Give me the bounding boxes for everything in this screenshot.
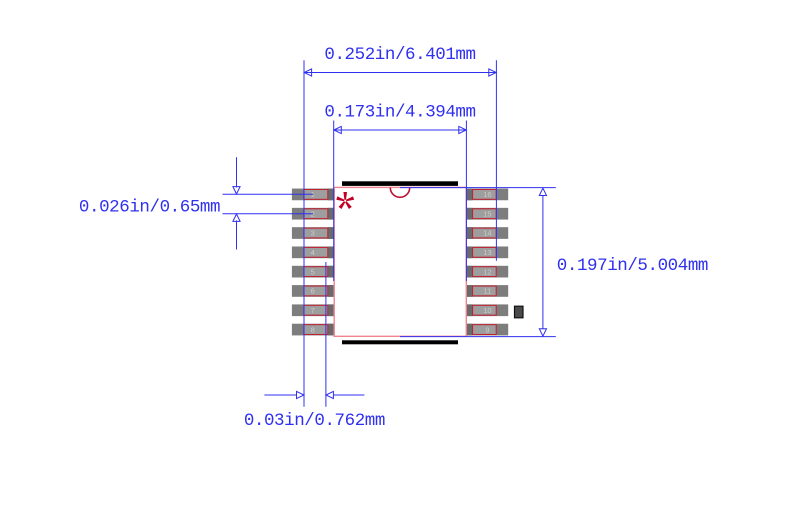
pad 2 (left)	[292, 208, 334, 220]
dimension extension line right body edge	[465, 121, 467, 282]
svg-text:5: 5	[311, 267, 315, 276]
dimension extension line left of 0.252in span	[303, 60, 305, 407]
pad 9 (right)	[467, 324, 509, 336]
pad 3 (left)	[292, 227, 334, 239]
svg-text:0.173in/4.394mm: 0.173in/4.394mm	[324, 103, 475, 123]
pad 7 (left)	[292, 304, 334, 316]
svg-text:7: 7	[311, 306, 315, 315]
lead length dimension arrow right	[326, 391, 364, 398]
pad 6 (left)	[292, 285, 334, 297]
svg-text:4: 4	[311, 248, 315, 257]
svg-text:12: 12	[483, 267, 491, 276]
svg-text:11: 11	[484, 287, 492, 296]
lead length dimension arrow left	[264, 391, 304, 398]
svg-text:6: 6	[311, 287, 315, 296]
pad 11 (right)	[467, 285, 509, 297]
dimension extension line pad inner edge bottom	[325, 262, 327, 407]
svg-text:14: 14	[483, 229, 491, 238]
pad 10 (right)	[467, 304, 509, 316]
dimension line 0.173in/4.394mm	[334, 126, 467, 133]
pitch dimension pointer line to pin 2	[223, 213, 314, 215]
svg-text:0.252in/6.401mm: 0.252in/6.401mm	[324, 45, 475, 65]
pad 4 (left)	[292, 246, 334, 258]
pin-1 end notch semicircle	[390, 188, 409, 198]
pad 14 (right)	[467, 227, 509, 239]
pin-1 asterisk marker	[336, 192, 354, 209]
svg-text:10: 10	[483, 306, 491, 315]
height dimension vertical line with arrows	[539, 188, 546, 336]
pad 8 (left)	[292, 324, 334, 336]
svg-text:8: 8	[311, 325, 315, 334]
svg-text:15: 15	[483, 209, 491, 218]
height dimension extension line top	[400, 187, 556, 189]
dimension extension line right of 0.252in span	[495, 60, 497, 261]
svg-text:13: 13	[483, 248, 491, 257]
pad 1 (left)	[292, 189, 334, 201]
svg-text:16: 16	[483, 190, 491, 199]
pad 13 (right)	[467, 246, 509, 258]
svg-text:0.03in/0.762mm: 0.03in/0.762mm	[244, 411, 385, 431]
dimension line 0.252in/6.401mm	[304, 69, 496, 76]
pad 15 (right)	[467, 208, 509, 220]
svg-text:9: 9	[485, 325, 489, 334]
orientation marker rectangle near pin 10	[515, 306, 524, 318]
svg-text:0.197in/5.004mm: 0.197in/5.004mm	[557, 256, 708, 276]
pad 5 (left)	[292, 266, 334, 278]
pitch dimension vertical line with arrows	[233, 157, 240, 249]
dimension extension line left body edge	[333, 121, 335, 282]
height dimension extension line bottom	[400, 336, 556, 338]
package body outline	[334, 187, 466, 336]
svg-text:0.026in/0.65mm: 0.026in/0.65mm	[79, 197, 220, 217]
top assembly bar	[342, 181, 458, 186]
pad 16 (right)	[467, 189, 509, 201]
bottom assembly bar	[342, 340, 458, 344]
pitch dimension pointer line to pin 1	[223, 193, 314, 195]
pad 12 (right)	[467, 266, 509, 278]
svg-text:3: 3	[311, 229, 315, 238]
